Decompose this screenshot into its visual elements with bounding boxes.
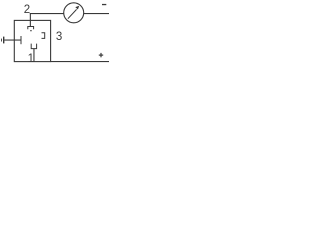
meter needle: [68, 9, 77, 18]
battery B1 short plate: [0, 39, 3, 42]
meter needle arrowhead: [75, 6, 79, 10]
bottom rail wire to right edge: [51, 61, 109, 62]
top rail wire to meter: [30, 13, 64, 14]
pin 2 wire (vertical up from contact through box top to top rail): [30, 13, 31, 27]
plug tip contact bar: [21, 36, 22, 44]
svg-text:1: 1: [28, 53, 34, 65]
connector box J1: [14, 20, 50, 61]
wire battery to plug tip: [4, 40, 21, 41]
pin 3 contact bracket: [42, 33, 45, 39]
svg-text:3: 3: [56, 31, 62, 43]
svg-text:2: 2: [24, 4, 30, 16]
pin 2 switch dot: [30, 30, 31, 31]
battery B1 long plate: [3, 37, 4, 44]
pin 1 wire down to bottom rail: [33, 49, 34, 62]
label minus terminal: [102, 4, 106, 5]
pin 2 contact staple: [28, 27, 34, 30]
pin 1 contact U: [31, 44, 36, 49]
wire meter to right edge: [83, 13, 109, 14]
meter M1 circle: [64, 3, 84, 23]
background: [0, 0, 109, 72]
label plus terminal: [99, 55, 103, 56]
